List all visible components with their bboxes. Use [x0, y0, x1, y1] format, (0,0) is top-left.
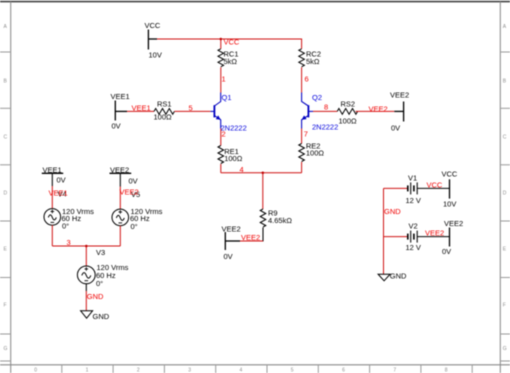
transistor Q2: [302, 93, 313, 129]
svg-text:F: F: [503, 303, 506, 309]
wire node 7: [301, 129, 303, 144]
border right letters: [503, 24, 507, 352]
svg-text:D: D: [4, 191, 8, 197]
svg-text:G: G: [503, 346, 507, 352]
border bottom numbers: [34, 367, 447, 373]
transistor Q1: [210, 93, 220, 129]
svg-text:VEE2: VEE2: [444, 219, 463, 228]
svg-text:5: 5: [291, 367, 294, 373]
ground (right): [378, 274, 390, 281]
svg-text:0V: 0V: [391, 124, 400, 133]
svg-text:3: 3: [67, 238, 71, 247]
svg-text:12 V: 12 V: [406, 243, 421, 252]
on-page connector VEE2 (right of RS2): [394, 102, 403, 122]
svg-text:GND: GND: [93, 312, 110, 321]
border right ticks: [500, 52, 510, 361]
wire node 4: [221, 173, 302, 209]
svg-text:0°: 0°: [62, 221, 69, 230]
svg-text:VCC: VCC: [145, 21, 161, 30]
resistor RS2: [337, 109, 357, 115]
svg-text:C: C: [4, 135, 8, 141]
svg-text:12 V: 12 V: [406, 196, 421, 205]
svg-text:1: 1: [86, 367, 89, 373]
svg-text:VEE2: VEE2: [222, 225, 241, 234]
svg-text:2N2222: 2N2222: [312, 123, 338, 132]
svg-text:10V: 10V: [149, 51, 162, 60]
resistor RC1: [218, 49, 224, 67]
on-page connector VEE2 (top of V5): [110, 172, 132, 174]
svg-text:Q1: Q1: [222, 93, 232, 102]
on-page connector VEE2 (right): [449, 228, 451, 247]
on-page connector VCC (right): [449, 179, 451, 198]
source V3: [77, 266, 95, 284]
wire net VEE2 (right of RS2): [356, 110, 395, 112]
junction node 4: [262, 172, 265, 175]
svg-text:VEE1: VEE1: [49, 188, 68, 197]
border right strip line: [499, 2, 501, 373]
battery V1: [408, 182, 417, 194]
resistor RE2: [299, 144, 305, 162]
svg-text:0V: 0V: [129, 177, 138, 186]
wire V4 top: [51, 173, 53, 186]
wire node 2: [220, 129, 222, 146]
wire V2 to VEE2 connector: [417, 236, 449, 238]
junction VCC rail / RC1: [220, 38, 223, 41]
svg-text:VEE2: VEE2: [110, 165, 129, 174]
border left letters: [4, 24, 8, 352]
svg-text:VCC: VCC: [427, 181, 443, 190]
svg-text:GND: GND: [390, 271, 407, 280]
svg-text:7: 7: [304, 130, 308, 139]
wire net VEE1 into V4: [51, 186, 53, 209]
svg-text:7: 7: [393, 367, 396, 373]
svg-text:C: C: [503, 135, 507, 141]
svg-text:GND: GND: [384, 207, 401, 216]
svg-text:4.65kΩ: 4.65kΩ: [268, 216, 292, 225]
svg-text:V1: V1: [408, 173, 417, 182]
wire net VEE1 to RS1: [127, 110, 154, 112]
wire V5 bottom to node 3: [119, 226, 121, 246]
svg-text:2: 2: [222, 130, 226, 139]
wire node 8: [313, 110, 337, 112]
svg-text:RS2: RS2: [341, 99, 356, 108]
svg-text:VEE2: VEE2: [120, 188, 139, 197]
svg-text:1: 1: [222, 74, 226, 83]
on-page connector VEE1 (left of RS1): [115, 101, 127, 121]
wire node 3: [52, 246, 120, 266]
svg-text:VEE2: VEE2: [390, 91, 409, 100]
wire node 5: [175, 110, 211, 112]
svg-text:0V: 0V: [224, 252, 233, 261]
border left strip line: [10, 2, 12, 373]
wire V1 to VCC connector: [417, 187, 449, 189]
svg-text:Q2: Q2: [312, 93, 322, 102]
svg-text:8: 8: [445, 367, 448, 373]
svg-text:RS1: RS1: [157, 99, 172, 108]
svg-text:0°: 0°: [131, 222, 138, 231]
svg-text:4: 4: [240, 165, 244, 174]
svg-text:100Ω: 100Ω: [306, 149, 325, 158]
svg-text:5kΩ: 5kΩ: [224, 57, 238, 66]
svg-text:VEE1: VEE1: [111, 92, 130, 101]
border left ticks: [0, 52, 11, 361]
svg-text:G: G: [4, 346, 8, 352]
svg-text:6: 6: [342, 367, 345, 373]
source V4: [44, 209, 61, 226]
on-page connector VEE2 (bottom mid): [225, 232, 240, 250]
svg-text:V3: V3: [96, 248, 105, 257]
svg-text:0°: 0°: [96, 279, 103, 288]
svg-text:VCC: VCC: [224, 37, 240, 46]
svg-text:VEE1: VEE1: [132, 104, 151, 113]
wire RE2 to node 4: [301, 162, 303, 173]
wire node 6: [301, 67, 303, 92]
svg-text:VCC: VCC: [442, 170, 458, 179]
on-page connector VEE1 (top of V4): [42, 172, 63, 174]
battery V2: [408, 231, 417, 243]
svg-text:5kΩ: 5kΩ: [306, 57, 320, 66]
svg-text:4: 4: [240, 367, 243, 373]
resistor RE1: [218, 146, 224, 164]
ground (left): [81, 311, 93, 318]
power connector VCC (top left): [148, 30, 157, 50]
resistor RS1: [154, 109, 174, 115]
svg-text:8: 8: [324, 103, 328, 112]
svg-text:0: 0: [34, 367, 37, 373]
svg-text:0V: 0V: [57, 176, 66, 185]
resistor RC2: [299, 49, 305, 67]
wire net GND (right, vertical): [384, 188, 408, 274]
wire node 1: [220, 67, 222, 92]
wire V4 bottom to node 3: [51, 225, 53, 246]
svg-text:D: D: [503, 191, 507, 197]
resistor R9: [260, 209, 266, 227]
svg-text:VEE2: VEE2: [241, 233, 260, 242]
svg-text:F: F: [4, 303, 7, 309]
wire RE1 to node 4: [220, 164, 222, 173]
wire V3 bottom: [85, 284, 87, 291]
wire net VCC rail: [157, 39, 302, 49]
svg-text:VEE1: VEE1: [43, 165, 62, 174]
wire V5 top: [119, 173, 121, 186]
svg-text:100Ω: 100Ω: [154, 113, 173, 122]
wire net VEE2 (bottom mid): [237, 240, 263, 242]
svg-text:0V: 0V: [442, 247, 451, 256]
svg-text:10V: 10V: [443, 200, 456, 209]
svg-text:2: 2: [137, 367, 140, 373]
svg-text:5: 5: [189, 104, 193, 113]
border bottom strip: [0, 364, 510, 366]
wire R9 bottom lead: [240, 228, 263, 242]
junction node 3: [85, 245, 88, 248]
wire net GND (left): [85, 291, 87, 311]
svg-text:VEE2: VEE2: [425, 229, 444, 238]
source V5: [112, 209, 129, 226]
svg-text:6: 6: [305, 74, 309, 83]
svg-text:3: 3: [188, 367, 191, 373]
svg-text:GND: GND: [87, 292, 104, 301]
svg-text:V2: V2: [409, 222, 418, 231]
svg-text:100Ω: 100Ω: [339, 116, 358, 125]
svg-text:100Ω: 100Ω: [224, 154, 243, 163]
border frame top line: [0, 1, 510, 3]
svg-text:VEE2: VEE2: [369, 104, 388, 113]
svg-text:0V: 0V: [112, 122, 121, 131]
wire net VEE2 into V5: [119, 187, 121, 210]
